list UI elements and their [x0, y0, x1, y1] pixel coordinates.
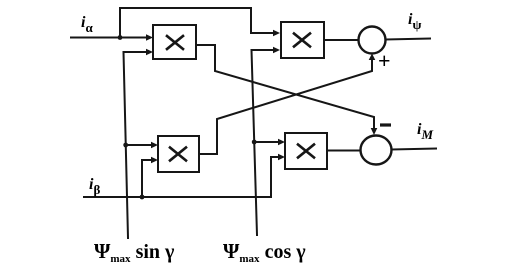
multiplier M4	[285, 133, 327, 169]
wire i_beta input with tap to M3 and elbow to M4	[84, 154, 285, 200]
svg-text:Ψmax sin γ: Ψmax sin γ	[94, 239, 175, 265]
wire M2 output to S1	[324, 39, 359, 41]
summer S1	[359, 27, 386, 54]
minus sign at S2	[380, 123, 391, 126]
wire i_alpha input	[71, 34, 153, 41]
wire S1 output i_psi	[386, 39, 431, 40]
svg-text:Ψmax cos γ: Ψmax cos γ	[223, 239, 306, 265]
wire S2 output i_M	[392, 149, 437, 150]
wire M1 output diagonal to summer S2 (minus input)	[196, 45, 377, 135]
wire i_alpha branch over top rail to M2	[120, 8, 280, 38]
svg-text:+: +	[378, 48, 391, 73]
wire cos-gamma vertical with taps to M2 and M4	[252, 47, 286, 235]
wire M4 output to S2	[327, 150, 361, 152]
wire M3 output diagonal to summer S1 (plus input)	[199, 54, 375, 155]
wire sin-gamma vertical with taps to M1 and M3	[123, 49, 158, 238]
multiplier M3	[158, 136, 199, 172]
summer S2	[361, 136, 392, 165]
multiplier M1	[153, 25, 196, 59]
multiplier M2	[281, 22, 324, 58]
